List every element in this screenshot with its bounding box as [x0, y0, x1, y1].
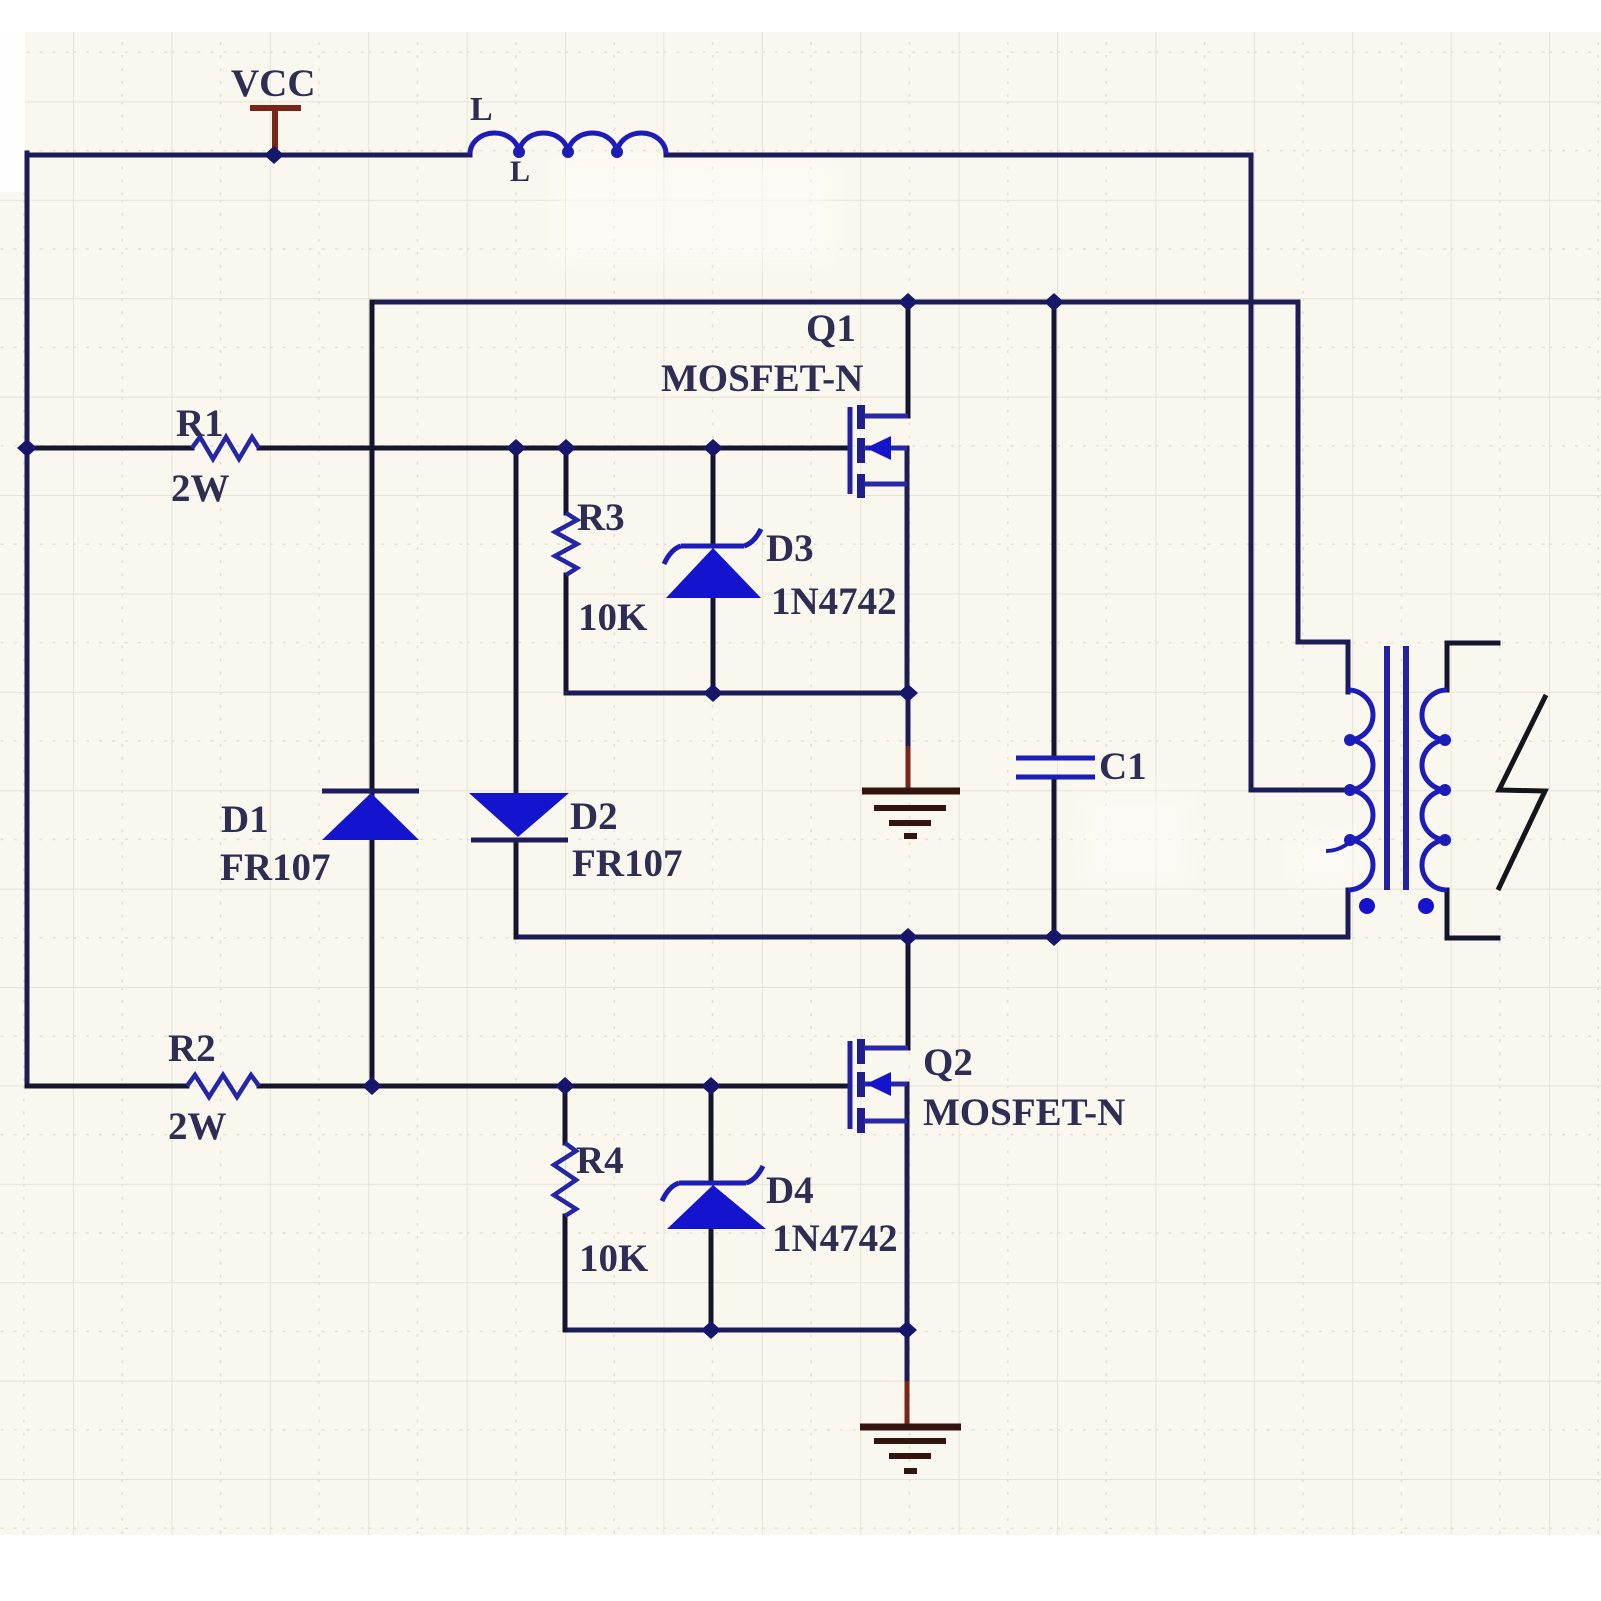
svg-text:Q2: Q2 [923, 1041, 973, 1084]
wire: C1 bottom lead [1052, 781, 1057, 937]
node: D4 top tap [701, 1077, 721, 1095]
wire: Q1 drain vertical [906, 302, 911, 416]
wire: transformer primary bottom lead [1346, 890, 1351, 937]
node: D1 bottom / R2 wire [362, 1077, 382, 1095]
node: Q2 source / ground rail [897, 1321, 917, 1339]
svg-text:VCC: VCC [231, 62, 316, 105]
node: R4 top tap [555, 1077, 575, 1095]
white smudge under inductor label [556, 162, 832, 258]
wire: top rail right segment, corner down to transformer center tap [666, 155, 1345, 790]
wire: transformer secondary top lead [1447, 643, 1498, 690]
wire: D4 branch verticals [709, 1086, 714, 1330]
inductor L [470, 133, 666, 154]
wire: C1 top lead [1052, 302, 1057, 755]
wire: middle rail y=937 [516, 935, 1348, 940]
wire: vertical through D1 [370, 302, 375, 1086]
svg-text:R3: R3 [577, 496, 625, 539]
ground 2 stem lower (red) [905, 1381, 910, 1425]
resistor R2 [187, 1075, 259, 1097]
svg-text:MOSFET-N: MOSFET-N [661, 357, 863, 400]
wire: rail under R4/D4 [566, 1328, 907, 1333]
svg-text:2W: 2W [171, 467, 230, 510]
ground 1 bars [862, 791, 960, 836]
node: D3 top tap [703, 439, 723, 457]
svg-text:R4: R4 [576, 1139, 624, 1182]
wire: Q2 drain vertical [906, 937, 911, 1048]
resistor R1 [192, 437, 259, 459]
white smudge right of C1 [1086, 797, 1186, 877]
svg-text:1N4742: 1N4742 [772, 1217, 898, 1260]
svg-text:D2: D2 [570, 795, 618, 838]
wire: left vertical rail [25, 153, 30, 1086]
svg-text:D4: D4 [766, 1169, 814, 1212]
Q1 body arrow [866, 436, 891, 460]
wire: top rail left segment (VCC node to inductor) [27, 153, 470, 158]
wire: R4 branch verticals [563, 1086, 568, 1330]
wire: Q2 source vertical [905, 1084, 910, 1330]
wire: right branch to transformer primary top [1298, 302, 1348, 692]
spark gap lightning symbol [1498, 695, 1546, 890]
node: D2 top tap [506, 439, 526, 457]
svg-text:MOSFET-N: MOSFET-N [923, 1091, 1125, 1134]
wire: rail under R3/D3 [566, 691, 908, 696]
svg-text:1N4742: 1N4742 [771, 580, 897, 623]
svg-text:2W: 2W [168, 1105, 227, 1148]
capacitor C1 [1016, 758, 1095, 777]
resistor R4 [554, 1143, 576, 1216]
transformer secondary winding [1422, 690, 1447, 890]
svg-text:Q1: Q1 [806, 307, 856, 350]
wire: R1 gate wire to Q1 [27, 446, 848, 451]
svg-text:10K: 10K [579, 1237, 649, 1280]
MOSFET Q2 [850, 1039, 908, 1133]
zener diode D3 1N4742 [664, 529, 761, 564]
wire: R2 gate wire to Q2 [27, 1084, 848, 1089]
wire: Q1 source vertical [905, 448, 910, 693]
white corner patch top-left [0, 32, 25, 192]
svg-text:D3: D3 [766, 527, 814, 570]
svg-text:L: L [470, 91, 493, 128]
wire: D2 branch verticals [514, 448, 519, 937]
node: C1 top rail [1044, 293, 1064, 311]
node: Q1 source / ground rail [898, 684, 918, 702]
wire: transformer secondary bottom lead [1447, 890, 1498, 938]
transformer secondary cusp dots [1439, 734, 1451, 846]
diode D2 FR107 [469, 793, 569, 840]
wire: ground 1 stem upper [906, 693, 911, 746]
zener diode D4 1N4742 [662, 1166, 763, 1201]
node: D3 bottom rail [703, 684, 723, 702]
svg-text:FR107: FR107 [220, 846, 331, 889]
node: R3 top tap [556, 439, 576, 457]
svg-text:R2: R2 [168, 1027, 216, 1070]
node: Q2 drain mid rail [898, 928, 918, 946]
diode D1 FR107 [322, 791, 419, 840]
wire: ground 2 stem upper [905, 1330, 910, 1381]
transformer primary winding [1348, 690, 1373, 890]
node: VCC tap [264, 146, 284, 164]
wire: upper drain rail y=302 [372, 300, 1298, 305]
transformer primary cusp dots [1344, 734, 1356, 846]
svg-text:D1: D1 [221, 798, 269, 841]
Q2 body arrow [866, 1072, 891, 1096]
transformer phase dots [1359, 898, 1434, 914]
svg-text:R1: R1 [176, 402, 224, 445]
node: Q1 drain rail [898, 293, 918, 311]
inductor cusp dots [513, 146, 623, 158]
wire: D3 branch verticals [711, 448, 716, 693]
transformer center-tap stub [1326, 842, 1350, 851]
white smudge left of transformer bottom [1296, 838, 1352, 878]
svg-text:L: L [510, 155, 530, 188]
node: C1 bottom mid rail [1044, 928, 1064, 946]
svg-text:FR107: FR107 [572, 842, 683, 885]
wire: R3 branch verticals [564, 448, 569, 693]
svg-text:10K: 10K [578, 596, 648, 639]
transformer core lines [1387, 646, 1406, 890]
ground 2 bars [860, 1427, 961, 1471]
MOSFET Q1 [850, 405, 908, 498]
VCC power symbol [250, 108, 301, 152]
svg-text:C1: C1 [1099, 745, 1147, 788]
ground 1 stem lower (red) [906, 746, 911, 789]
resistor R3 [555, 513, 577, 575]
node: R1 left [17, 439, 37, 457]
node: D4 bottom rail [701, 1321, 721, 1339]
